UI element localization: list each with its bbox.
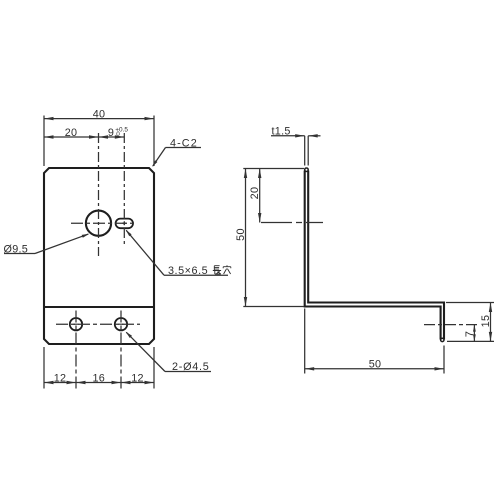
svg-text:Ø9.5: Ø9.5 [4, 244, 29, 256]
extension line side bottom-left [243, 306, 304, 308]
bend line [44, 306, 154, 308]
svg-text:12: 12 [54, 372, 67, 384]
svg-text:4-C2: 4-C2 [170, 137, 198, 149]
center line vertical slot [123, 133, 125, 246]
extension line right edge top [153, 116, 155, 167]
center line vertical hole Ø9.5 [98, 133, 100, 256]
svg-text:20: 20 [249, 187, 261, 200]
svg-text:t1.5: t1.5 [272, 125, 291, 137]
svg-text:12: 12 [131, 372, 144, 384]
dimension 12 left [44, 382, 76, 384]
svg-text:7: 7 [464, 331, 476, 337]
center line hole level side [261, 222, 323, 224]
dimension t1.5 [271, 135, 305, 137]
side view top edge cap [305, 168, 309, 172]
side view bottom edge cap [441, 338, 444, 341]
dimension 9 +0.5/0 [99, 136, 125, 138]
dimension 40 [44, 118, 154, 120]
dimension 20 [44, 136, 99, 138]
svg-text:40: 40 [93, 108, 106, 120]
center line vertical left 4.5 hole [75, 311, 77, 389]
extension line bend bottom [304, 309, 306, 374]
slot center mark [122, 222, 126, 224]
dimension 7 [473, 325, 475, 342]
hole 2-Ø4.5 right center mark [119, 323, 124, 325]
dimension 20 height [259, 169, 261, 223]
dimension 50 height [245, 169, 247, 307]
svg-text:20: 20 [65, 127, 78, 139]
extension line leg top right [446, 302, 494, 304]
center line horizontal Ø9.5/slot [71, 222, 137, 224]
extension line left edge bottom [43, 347, 45, 389]
center line tab hole level [424, 324, 477, 326]
dimension 12 right [121, 382, 154, 384]
svg-text:50: 50 [235, 228, 247, 241]
svg-text:0: 0 [116, 131, 120, 138]
center line vertical right 4.5 hole [120, 311, 122, 389]
extension line tab bottom-50 [443, 346, 445, 374]
extension line right edge bottom [153, 347, 155, 389]
svg-text:15: 15 [480, 315, 492, 328]
svg-text:2-Ø4.5: 2-Ø4.5 [172, 361, 210, 373]
extension line side top [243, 168, 304, 170]
slot leader kanji 長穴 [213, 265, 231, 274]
svg-text:9: 9 [108, 127, 114, 139]
dimension 50 length [305, 368, 444, 370]
svg-text:3.5×6.5: 3.5×6.5 [168, 265, 208, 277]
center line horizontal 2-Ø4.5 [56, 323, 140, 325]
leader 4-C2 [166, 147, 202, 149]
svg-text:16: 16 [92, 372, 105, 384]
slot 3.5x6.5 outline [116, 219, 133, 229]
leader 2-Ø4.5 [165, 371, 211, 373]
side view inner surface (right+top) [308, 171, 444, 340]
extension lines thickness [304, 136, 306, 166]
leader Ø9.5 [4, 253, 35, 255]
hole 2-Ø4.5 left center mark [74, 323, 79, 325]
extension line tab bottom right [447, 340, 494, 342]
front view plate outline [44, 168, 154, 344]
svg-text:50: 50 [369, 359, 382, 371]
dimension 16 [76, 382, 121, 384]
extension line left edge top [43, 116, 45, 167]
leader 3.5x6.5 slot [164, 274, 228, 276]
hole 2-Ø4.5 right [115, 318, 127, 330]
hole 2-Ø4.5 left [70, 318, 82, 330]
hole Ø9.5 [86, 211, 111, 236]
dimension 15 [490, 303, 492, 342]
side view outer surface (left+bottom) [305, 171, 441, 340]
